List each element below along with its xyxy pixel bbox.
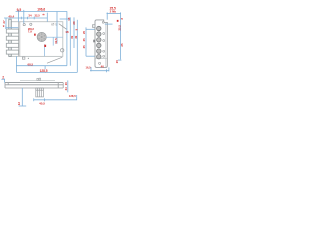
svg-text:128,5: 128,5 [40, 69, 48, 73]
svg-text:24: 24 [64, 87, 68, 91]
svg-text:128,5: 128,5 [69, 94, 76, 98]
top dimension line 2 [4, 13, 47, 22]
svg-text:12: 12 [17, 102, 21, 106]
svg-text:32,5: 32,5 [54, 38, 58, 44]
right-top dimension line [107, 12, 122, 60]
bolt 2 [6, 36, 18, 40]
screw hole right [30, 23, 32, 25]
svg-text:25: 25 [82, 38, 86, 42]
bolt circle 1 [97, 26, 101, 30]
bolt 4 [6, 50, 18, 54]
faceplate strip [9, 19, 11, 56]
svg-text:25: 25 [120, 43, 124, 47]
svg-text:18: 18 [65, 30, 69, 34]
svg-text:2: 2 [2, 75, 4, 79]
tick between L1 and L2 [44, 66, 46, 70]
housing width and backset dim line [34, 95, 77, 101]
screw hole left [23, 24, 25, 26]
vertical dim line x57 [56, 11, 58, 44]
diameter callout leader top-right [59, 24, 67, 30]
bottom-right hole [61, 49, 64, 52]
cylinder nub 2 [39, 78, 41, 80]
inner side wall line [105, 22, 107, 67]
inner guide plate lines [19, 22, 20, 57]
connector y19 [60, 18, 71, 20]
bottom view: faceplate strip [0, 0, 1, 1]
bolt spacing dim line x86 [86, 27, 95, 56]
small stop box under case [22, 57, 25, 59]
svg-text:7,9: 7,9 [28, 30, 32, 34]
bolt throw dimension line [6, 26, 18, 29]
svg-text:32,5: 32,5 [35, 13, 41, 17]
notch dimension line [105, 23, 113, 25]
bolt circle 5 [97, 49, 101, 53]
screw holes right column [99, 21, 105, 64]
centerline horizontal from cylinder [46, 36, 62, 38]
svg-text:34: 34 [28, 13, 32, 17]
extension line below cylinder [44, 44, 46, 56]
faceplate thickness dim [1, 79, 5, 83]
vertical dim line x66.9 [66, 11, 68, 65]
bolt circle 2 [97, 32, 101, 36]
bar height dim line [67, 80, 69, 92]
svg-text:20: 20 [64, 82, 68, 86]
below right-view dimension line [90, 67, 109, 72]
below-case dimension line 1 [16, 56, 67, 72]
bolt 3 [6, 43, 18, 47]
vertical dim line x77.3 [76, 20, 78, 73]
svg-text:2 Nb: 2 Nb [110, 10, 117, 14]
bolt circle 3 [97, 38, 101, 42]
bolt circle 6 [97, 55, 101, 59]
bolt circle 4 [97, 43, 101, 47]
top dimension line 1 [16, 10, 67, 23]
red mark left of cylinder [34, 34, 36, 36]
vertical dim line x74 [73, 17, 75, 48]
small stud [28, 58, 29, 59]
bottom view: cylinder housing protrusion [36, 88, 44, 97]
cylinder circle [37, 32, 46, 41]
inner bottom plate line [95, 57, 107, 59]
svg-text:40,5: 40,5 [39, 101, 45, 105]
svg-text:18: 18 [67, 17, 71, 21]
left vertical dimension line [5, 18, 7, 29]
below-case dimension line 2 [16, 71, 77, 73]
svg-text:25: 25 [82, 30, 86, 34]
svg-text:25: 25 [115, 60, 119, 64]
svg-text:40,4: 40,4 [8, 14, 14, 18]
cylinder nub 1 [37, 78, 39, 80]
red arrow mark near dim [117, 20, 119, 22]
svg-text:25,5: 25,5 [117, 25, 121, 31]
vertical dim line x70.3 [69, 17, 71, 65]
main view: lock case outline [11, 22, 63, 57]
faceplate face line in bottom view [20, 79, 55, 81]
bolt 1 [6, 29, 18, 33]
svg-text:25: 25 [82, 45, 86, 49]
svg-text:49: 49 [74, 35, 78, 39]
axis extension below bottom view [19, 88, 27, 106]
red mark below cylinder [44, 45, 46, 47]
svg-text:106,6: 106,6 [37, 7, 45, 11]
latch strike protruding left [93, 25, 96, 28]
extension line right of cylinder [52, 37, 54, 45]
right view outline [95, 20, 107, 68]
svg-text:68,5: 68,5 [28, 62, 34, 66]
svg-text:28: 28 [72, 21, 76, 25]
svg-text:16,5: 16,5 [86, 66, 92, 70]
latch block on faceplate [93, 40, 95, 43]
leader to bottom edge [47, 57, 62, 63]
svg-text:40: 40 [101, 64, 105, 68]
svg-text:9,5: 9,5 [17, 8, 22, 12]
